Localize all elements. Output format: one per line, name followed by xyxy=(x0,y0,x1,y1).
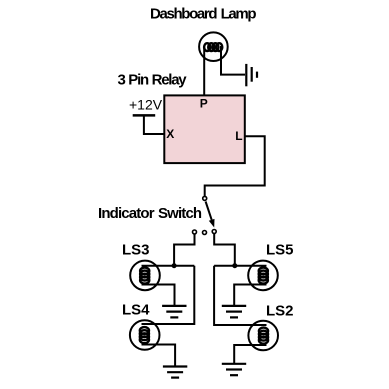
ground (below LS5) xyxy=(222,306,246,318)
svg-text:Dashboard Lamp: Dashboard Lamp xyxy=(150,6,256,23)
wire: LS4 bottom lead to ground xyxy=(142,345,176,368)
ground (below LS3) xyxy=(162,306,186,318)
svg-text:P: P xyxy=(200,97,208,111)
lamp LS4 xyxy=(130,320,160,350)
svg-text:Indicator Switch: Indicator Switch xyxy=(98,205,202,222)
svg-text:L: L xyxy=(235,129,242,143)
svg-text:3 Pin Relay: 3 Pin Relay xyxy=(118,72,188,89)
ground (below LS4) xyxy=(163,367,187,378)
svg-text:LS4: LS4 xyxy=(122,302,150,319)
svg-text:+12V: +12V xyxy=(129,96,163,112)
wire: relay pin L right, down, left to switch pole xyxy=(205,136,265,196)
wire: LS5 bottom lead to ground xyxy=(234,285,266,307)
relay U1 (3 pin relay box) xyxy=(164,95,245,163)
svg-text:X: X xyxy=(166,127,174,141)
lamp LS5 xyxy=(248,261,278,291)
ground (right of dashboard lamp, rotated) xyxy=(246,64,257,86)
lamp DL (dashboard lamp) xyxy=(199,32,228,61)
svg-text:LS5: LS5 xyxy=(266,242,294,259)
switch SW throw contact left xyxy=(193,230,197,234)
switch SW throw contact right xyxy=(212,230,216,234)
wire: node A horizontal to LS3 and right xyxy=(142,265,195,267)
wire: lamp DL right lead down then right to ground xyxy=(221,46,245,75)
node B (junction above LS5) xyxy=(232,263,237,268)
svg-text:LS2: LS2 xyxy=(266,303,294,320)
+12V supply bar xyxy=(133,114,156,117)
svg-text:LS3: LS3 xyxy=(122,242,150,259)
ground (below LS2) xyxy=(222,364,246,375)
wire: lamp DL left lead down to relay pin P xyxy=(203,46,205,95)
wire: node B horizontal to LS5 and left xyxy=(214,265,266,267)
lamp LS3 xyxy=(130,261,160,291)
wire: right throw down-right to node B xyxy=(214,234,235,266)
switch SW pole contact xyxy=(203,196,207,200)
wire: down from node A branch to LS4 xyxy=(142,266,195,324)
wire: down from node B branch to LS2 xyxy=(214,266,266,325)
lamp LS2 xyxy=(248,321,278,351)
switch SW arm (arrow to right throw) xyxy=(206,202,212,220)
wire: +12V to relay pin X xyxy=(144,115,164,135)
switch SW throw contact middle xyxy=(203,231,207,235)
node A (junction above LS3) xyxy=(172,263,177,268)
wire: left throw down-left to node A xyxy=(174,234,194,266)
wire: LS3 bottom lead to ground xyxy=(142,285,175,307)
wire: LS2 bottom lead to ground xyxy=(234,345,266,364)
